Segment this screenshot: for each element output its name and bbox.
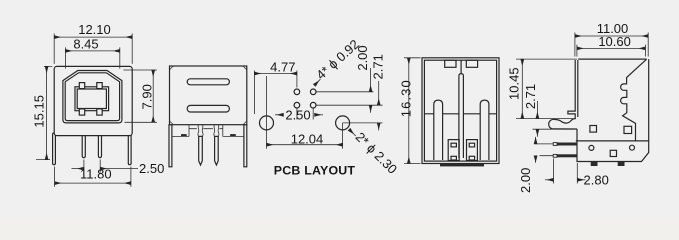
profile left edge and tab xyxy=(549,60,577,129)
pin hole row2 right xyxy=(310,102,316,108)
rear top notch right xyxy=(466,60,477,67)
rear contact holes xyxy=(451,143,456,147)
dimension 2.00 (profile) xyxy=(535,137,537,144)
svg-text:10.60: 10.60 xyxy=(598,34,631,49)
svg-text:10.45: 10.45 xyxy=(507,67,522,100)
rear bottom strip xyxy=(440,163,484,166)
rear contact housing left xyxy=(448,140,459,161)
svg-text:2.50: 2.50 xyxy=(139,161,164,176)
svg-text:4.77: 4.77 xyxy=(270,60,295,75)
svg-text:15.15: 15.15 xyxy=(31,95,46,128)
rear finger left xyxy=(434,100,443,160)
dimension 12.10 xyxy=(54,34,132,64)
svg-text:2.71: 2.71 xyxy=(523,84,538,109)
front contact pad bottom-left xyxy=(79,109,84,115)
side center block xyxy=(189,125,223,137)
rear body outer xyxy=(422,58,499,164)
front socket rect outer xyxy=(75,87,109,111)
svg-text:8.45: 8.45 xyxy=(73,37,98,52)
svg-text:PCB LAYOUT: PCB LAYOUT xyxy=(274,163,356,177)
front socket rect inner xyxy=(77,89,106,109)
side step tab right xyxy=(230,134,236,136)
front contact pad top-right xyxy=(97,83,102,89)
pin hole row1 right xyxy=(310,89,316,95)
front USB-B outline inner xyxy=(65,73,119,121)
dimension 11.00 xyxy=(575,33,648,57)
side step tab left xyxy=(181,134,187,136)
front USB-B outline outer xyxy=(63,71,122,123)
rear contact housing right xyxy=(467,140,478,161)
svg-text:2.00: 2.00 xyxy=(518,168,533,193)
side body xyxy=(170,66,247,125)
svg-text:2.00: 2.00 xyxy=(355,45,370,70)
rear center line xyxy=(460,60,462,73)
profile block details xyxy=(589,145,594,150)
pin hole row2 left xyxy=(294,102,300,108)
svg-text:2.50: 2.50 xyxy=(285,107,310,122)
dimension 10.45 xyxy=(516,59,577,118)
svg-text:12.10: 12.10 xyxy=(78,22,111,37)
rear finger right xyxy=(480,100,489,160)
dimension 2.71 (pcb) xyxy=(343,122,383,124)
dimension 2.00 (pcb) xyxy=(317,92,383,105)
profile body outline xyxy=(576,59,649,161)
dimension 16.30 xyxy=(404,58,421,164)
side leg left xyxy=(169,125,172,167)
mounting hole right xyxy=(336,116,350,130)
rear top notch left xyxy=(445,60,456,67)
front pin 2 xyxy=(98,133,101,158)
dimension 2.80 xyxy=(554,159,578,184)
side slot 2 xyxy=(187,105,229,112)
svg-text:7.90: 7.90 xyxy=(139,84,154,109)
dimension 11.80 xyxy=(55,167,131,187)
front shell leg right xyxy=(128,133,131,165)
front pin 1 xyxy=(82,133,85,158)
dimension 8.45 xyxy=(65,47,119,68)
leader 4*phi0.92 xyxy=(314,79,320,85)
side pin 1 xyxy=(199,136,203,165)
front outer shell square xyxy=(54,66,132,135)
svg-text:12.04: 12.04 xyxy=(291,132,324,147)
pin hole row1 left xyxy=(294,89,300,95)
profile feet xyxy=(591,161,598,166)
profile pins xyxy=(557,143,577,146)
side pin 2 xyxy=(215,136,219,165)
side slot 1 xyxy=(187,79,229,85)
dimension 2.50 (front pins) xyxy=(84,160,100,173)
dimension 15.15 xyxy=(36,66,52,159)
side leg right xyxy=(244,125,247,167)
front contact pad bottom-right xyxy=(97,109,102,115)
mounting hole left xyxy=(260,116,274,130)
dimension 2.71 (profile) xyxy=(533,128,574,130)
profile left inner line xyxy=(577,60,579,117)
dimension 12.04 xyxy=(267,76,343,149)
side step plates xyxy=(172,135,244,137)
dimension 10.60 xyxy=(577,45,646,57)
profile right zigzag xyxy=(621,59,647,141)
rear floor line xyxy=(424,113,496,115)
front contact pad top-left xyxy=(79,83,84,89)
dimension 7.90 xyxy=(123,70,157,122)
dimension 4.77 xyxy=(254,71,297,115)
leader 2*phi2.30 xyxy=(349,129,356,136)
svg-text:16.30: 16.30 xyxy=(398,79,413,117)
rear body inner xyxy=(424,60,496,161)
svg-text:2.80: 2.80 xyxy=(584,172,609,187)
front shell leg left xyxy=(53,133,56,165)
profile square holes xyxy=(590,126,597,133)
rear center pin xyxy=(459,74,464,158)
dimension 2.50 (pcb) xyxy=(297,109,313,120)
side corner ticks xyxy=(170,66,247,125)
svg-text:2.71: 2.71 xyxy=(371,54,386,79)
